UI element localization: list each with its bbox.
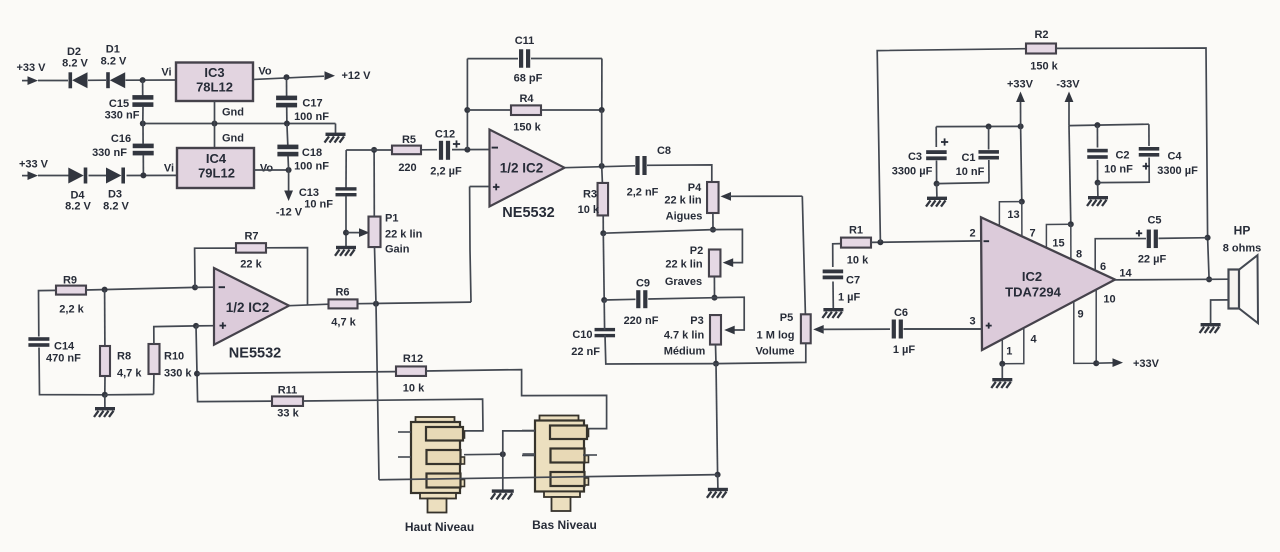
- svg-text:150 k: 150 k: [1030, 61, 1058, 73]
- svg-text:NE5532: NE5532: [502, 205, 554, 221]
- svg-text:C3: C3: [908, 151, 922, 163]
- svg-text:C18: C18: [302, 147, 322, 159]
- svg-text:22 k lin: 22 k lin: [665, 259, 703, 271]
- svg-text:Graves: Graves: [665, 276, 702, 288]
- svg-text:C13: C13: [299, 187, 319, 199]
- svg-text:330 nF: 330 nF: [105, 110, 140, 122]
- svg-text:HP: HP: [1234, 224, 1251, 238]
- svg-text:D2: D2: [67, 46, 81, 58]
- svg-text:C5: C5: [1147, 215, 1161, 227]
- svg-text:R5: R5: [402, 134, 416, 146]
- svg-text:4,7 k: 4,7 k: [117, 368, 142, 380]
- svg-text:R3: R3: [583, 189, 597, 201]
- svg-text:1 M log: 1 M log: [757, 330, 795, 342]
- svg-text:8 ohms: 8 ohms: [1223, 243, 1262, 255]
- svg-text:2: 2: [969, 228, 975, 240]
- svg-text:22 k: 22 k: [240, 259, 262, 271]
- svg-text:P3: P3: [690, 315, 703, 327]
- svg-text:C1: C1: [961, 152, 975, 164]
- svg-text:P2: P2: [690, 245, 703, 257]
- svg-text:R10: R10: [164, 351, 184, 363]
- svg-text:P4: P4: [688, 182, 702, 194]
- svg-text:C14: C14: [54, 341, 75, 353]
- svg-text:22 k lin: 22 k lin: [385, 229, 423, 241]
- svg-text:+12 V: +12 V: [341, 70, 371, 82]
- svg-text:8.2 V: 8.2 V: [103, 201, 129, 213]
- svg-text:7: 7: [1029, 228, 1035, 240]
- svg-text:Gnd: Gnd: [222, 107, 244, 119]
- svg-text:D3: D3: [108, 189, 122, 201]
- svg-text:Haut Niveau: Haut Niveau: [405, 520, 474, 534]
- svg-text:R8: R8: [117, 351, 131, 363]
- svg-text:R2: R2: [1034, 29, 1048, 41]
- svg-text:R4: R4: [519, 93, 534, 105]
- svg-text:-12 V: -12 V: [276, 207, 303, 219]
- svg-text:Vi: Vi: [164, 163, 174, 175]
- svg-text:22 µF: 22 µF: [1138, 254, 1167, 266]
- svg-text:C9: C9: [636, 278, 650, 290]
- svg-text:TDA7294: TDA7294: [1005, 285, 1061, 300]
- svg-text:10 k: 10 k: [847, 255, 869, 267]
- svg-text:1/2 IC2: 1/2 IC2: [226, 300, 270, 315]
- svg-text:4.7 k lin: 4.7 k lin: [664, 329, 705, 341]
- svg-text:1 µF: 1 µF: [838, 292, 861, 304]
- svg-text:2,2 k: 2,2 k: [59, 304, 84, 316]
- svg-text:R11: R11: [278, 385, 298, 397]
- svg-text:-33V: -33V: [1056, 79, 1080, 91]
- svg-text:Aigues: Aigues: [666, 211, 703, 223]
- svg-text:1 µF: 1 µF: [893, 344, 916, 356]
- svg-text:78L12: 78L12: [196, 80, 233, 95]
- svg-text:3300 µF: 3300 µF: [1157, 165, 1198, 177]
- svg-text:C11: C11: [515, 35, 535, 47]
- svg-text:Médium: Médium: [664, 346, 706, 358]
- svg-text:13: 13: [1007, 209, 1019, 221]
- svg-text:R6: R6: [335, 287, 349, 299]
- svg-text:9: 9: [1077, 309, 1083, 321]
- svg-text:330 nF: 330 nF: [92, 147, 127, 159]
- svg-text:Vo: Vo: [260, 163, 274, 175]
- svg-text:P1: P1: [385, 213, 398, 225]
- svg-text:NE5532: NE5532: [229, 346, 281, 362]
- svg-text:R9: R9: [63, 275, 77, 287]
- svg-text:33 k: 33 k: [277, 408, 299, 420]
- svg-text:IC3: IC3: [204, 65, 224, 80]
- svg-text:10 k: 10 k: [578, 204, 600, 216]
- svg-text:79L12: 79L12: [198, 166, 235, 181]
- svg-text:+33 V: +33 V: [16, 62, 46, 74]
- svg-text:10 k: 10 k: [403, 383, 425, 395]
- svg-text:10 nF: 10 nF: [304, 199, 333, 211]
- svg-text:Volume: Volume: [756, 346, 795, 358]
- svg-text:C12: C12: [435, 129, 455, 141]
- svg-text:14: 14: [1119, 268, 1132, 280]
- svg-text:P5: P5: [780, 312, 793, 324]
- svg-text:100 nF: 100 nF: [294, 111, 329, 123]
- svg-text:C6: C6: [894, 307, 908, 319]
- svg-text:8.2 V: 8.2 V: [101, 56, 127, 68]
- svg-text:D1: D1: [106, 44, 120, 56]
- svg-text:R1: R1: [849, 225, 863, 237]
- svg-text:22 nF: 22 nF: [571, 346, 600, 358]
- svg-text:10: 10: [1103, 294, 1115, 306]
- svg-text:C4: C4: [1167, 151, 1182, 163]
- svg-text:C17: C17: [302, 98, 322, 110]
- svg-text:3300 µF: 3300 µF: [892, 166, 933, 178]
- svg-text:+33V: +33V: [1007, 79, 1034, 91]
- svg-text:470 nF: 470 nF: [46, 353, 81, 365]
- svg-text:6: 6: [1100, 261, 1106, 273]
- svg-text:3: 3: [969, 316, 975, 328]
- svg-text:8.2 V: 8.2 V: [62, 58, 88, 70]
- svg-text:R12: R12: [403, 353, 423, 365]
- svg-text:2,2 nF: 2,2 nF: [627, 186, 659, 198]
- svg-text:220 nF: 220 nF: [624, 315, 659, 327]
- svg-text:10 nF: 10 nF: [956, 166, 985, 178]
- svg-text:+33 V: +33 V: [19, 159, 49, 171]
- svg-text:330 k: 330 k: [164, 368, 192, 380]
- svg-text:68 pF: 68 pF: [514, 73, 543, 85]
- svg-text:C7: C7: [846, 275, 860, 287]
- svg-text:1/2 IC2: 1/2 IC2: [500, 161, 544, 176]
- svg-text:4,7 k: 4,7 k: [331, 317, 356, 329]
- svg-text:Bas Niveau: Bas Niveau: [532, 518, 597, 532]
- svg-text:Vi: Vi: [161, 67, 171, 79]
- svg-text:Gain: Gain: [385, 244, 410, 256]
- svg-text:22 k lin: 22 k lin: [664, 195, 702, 207]
- svg-text:1: 1: [1006, 346, 1012, 358]
- svg-text:220: 220: [398, 162, 416, 174]
- svg-text:8: 8: [1076, 249, 1082, 261]
- svg-text:4: 4: [1030, 334, 1037, 346]
- svg-text:R7: R7: [244, 231, 258, 243]
- svg-text:C15: C15: [109, 98, 129, 110]
- svg-text:C10: C10: [572, 329, 592, 341]
- svg-text:+33V: +33V: [1133, 358, 1160, 370]
- svg-text:15: 15: [1052, 238, 1064, 250]
- svg-text:IC2: IC2: [1022, 269, 1042, 284]
- svg-text:10 nF: 10 nF: [1104, 164, 1133, 176]
- svg-text:100 nF: 100 nF: [294, 161, 329, 173]
- svg-text:C8: C8: [657, 145, 671, 157]
- svg-text:IC4: IC4: [206, 151, 227, 166]
- svg-text:150 k: 150 k: [513, 122, 541, 134]
- svg-text:8.2 V: 8.2 V: [65, 201, 91, 213]
- svg-text:C2: C2: [1115, 150, 1129, 162]
- svg-text:Gnd: Gnd: [222, 133, 244, 145]
- svg-text:Vo: Vo: [258, 66, 272, 78]
- svg-text:2,2 µF: 2,2 µF: [430, 166, 462, 178]
- svg-text:C16: C16: [111, 133, 131, 145]
